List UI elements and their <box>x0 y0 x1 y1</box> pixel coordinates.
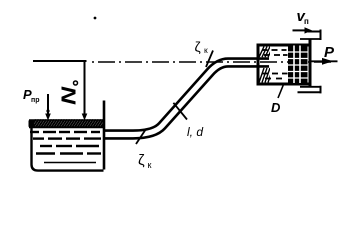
svg-text:к: к <box>204 45 208 55</box>
force arrow N (from datum to lid) <box>84 62 86 116</box>
cylinder body top edge <box>257 44 310 47</box>
svg-text:ζ: ζ <box>138 152 145 169</box>
svg-text:P: P <box>324 44 335 61</box>
datum line (reference level) <box>33 60 87 62</box>
tank shell (left wall and bottom) <box>32 120 104 171</box>
velocity arrow v_p <box>293 29 307 31</box>
pipe bore (white) <box>105 63 269 135</box>
svg-text:п: п <box>304 17 309 26</box>
svg-text:к: к <box>148 160 152 170</box>
label D with leader <box>278 85 284 99</box>
svg-text:D: D <box>271 100 281 115</box>
elbow tick upper <box>206 51 213 68</box>
force arrow P <box>309 60 338 62</box>
svg-text:N: N <box>57 86 79 105</box>
piston D (cross-hatched) <box>288 46 308 84</box>
left head hatching <box>259 47 273 83</box>
tick on pipe <box>173 103 187 120</box>
svg-text:ζ: ζ <box>195 39 201 55</box>
svg-text:пр: пр <box>31 97 40 104</box>
dash-dot axis of pipe/cylinder <box>92 61 332 63</box>
liquid surface dashes in tank <box>30 132 101 154</box>
lid (loaded piston) on liquid surface <box>29 119 109 128</box>
speck <box>94 17 97 20</box>
elbow tick lower <box>136 129 146 144</box>
svg-text:l, d: l, d <box>187 125 203 139</box>
cylinder body bottom edge <box>257 83 310 86</box>
tank right wall <box>103 101 106 170</box>
pipe l,d (outer walls) <box>105 63 269 135</box>
force arrow P_pr <box>47 94 49 115</box>
crosshead / rod flange <box>298 30 322 94</box>
cylinder left end wall <box>257 44 260 86</box>
liquid dashes inside cylinder <box>262 50 288 79</box>
